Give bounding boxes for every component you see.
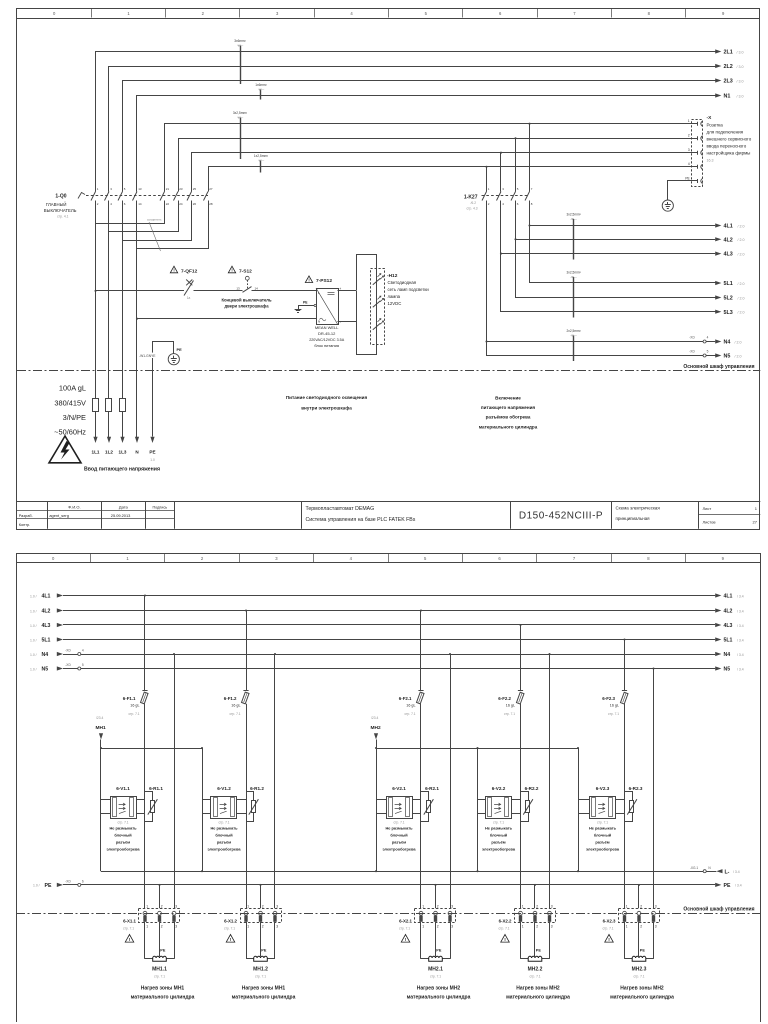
svg-text:стр. 4.1: стр. 4.1 bbox=[57, 215, 69, 219]
svg-text:3x2,5mm²: 3x2,5mm² bbox=[567, 213, 581, 217]
varistor 6-R2.2 bbox=[521, 786, 539, 822]
wire supply 1L1 bbox=[92, 201, 100, 455]
svg-text:!: ! bbox=[308, 277, 309, 282]
wire jumper pole3-pole7 bbox=[123, 201, 192, 241]
control vertical 6-V2.1 bbox=[375, 747, 377, 872]
svg-text:стр. 7.1: стр. 7.1 bbox=[602, 926, 613, 930]
svg-text:6-R1.2: 6-R1.2 bbox=[250, 786, 264, 791]
svg-text:27: 27 bbox=[753, 520, 758, 525]
svg-text:Ф.И.О.: Ф.И.О. bbox=[68, 505, 80, 510]
svg-text:-XG.1: -XG.1 bbox=[690, 866, 699, 870]
svg-text:4L3: 4L3 bbox=[724, 623, 733, 629]
svg-text:16 gL: 16 gL bbox=[130, 703, 139, 707]
PE drop bbox=[638, 884, 640, 908]
svg-text:16 gL: 16 gL bbox=[610, 703, 619, 707]
svg-text:MEAN WELL: MEAN WELL bbox=[315, 325, 339, 330]
svg-text:разъём: разъём bbox=[392, 839, 406, 844]
wire N to PSU bbox=[136, 318, 316, 320]
svg-text:сеть ламп подсветки: сеть ламп подсветки bbox=[388, 287, 430, 292]
svg-text:стр. 7.1: стр. 7.1 bbox=[529, 974, 540, 978]
cable marker 1x6mm2 (N1) bbox=[255, 83, 267, 100]
svg-text:25.09.2013: 25.09.2013 bbox=[111, 513, 130, 518]
svg-text:25: 25 bbox=[193, 187, 197, 191]
svg-text:материального цилиндра: материального цилиндра bbox=[131, 994, 195, 1000]
svg-text:1: 1 bbox=[146, 904, 148, 908]
svg-text:материального цилиндра: материального цилиндра bbox=[407, 994, 471, 1000]
svg-text:стр. 4.3: стр. 4.3 bbox=[466, 207, 477, 211]
svg-text:4L1: 4L1 bbox=[724, 224, 733, 230]
svg-text:2: 2 bbox=[640, 904, 642, 908]
svg-text:/ 2.0: / 2.0 bbox=[738, 224, 745, 228]
heater &#1052;&#1053;2.3 bbox=[625, 926, 654, 979]
svg-text:блочный: блочный bbox=[594, 833, 612, 838]
svg-text:1: 1 bbox=[626, 925, 628, 929]
svg-text:6-R2.3: 6-R2.3 bbox=[629, 786, 643, 791]
wire 4L3 / 5L3 bbox=[500, 201, 745, 316]
svg-text:МН2: МН2 bbox=[371, 725, 381, 731]
svg-text:-W—: -W— bbox=[237, 44, 244, 48]
neutral drop N4 zone &#1052;&#1053;1.1 bbox=[173, 653, 175, 908]
svg-text:4L2: 4L2 bbox=[724, 609, 733, 615]
svg-text:L-: L- bbox=[725, 869, 730, 875]
svg-text:22: 22 bbox=[166, 202, 170, 206]
svg-text:PE: PE bbox=[177, 347, 183, 352]
heater caption bbox=[610, 986, 674, 1001]
svg-text:МН2.2: МН2.2 bbox=[528, 966, 543, 972]
neutral drop N4 zone &#1052;&#1053;2.2 bbox=[548, 653, 550, 908]
heater &#1052;&#1053;2.2 bbox=[521, 926, 550, 979]
svg-text:/ 3.4: / 3.4 bbox=[737, 624, 744, 628]
svg-text:1.0: 1.0 bbox=[150, 458, 155, 462]
svg-text:5L2: 5L2 bbox=[724, 296, 733, 302]
svg-text:13: 13 bbox=[236, 286, 240, 290]
svg-text:5L1: 5L1 bbox=[724, 638, 733, 644]
connector hazard bbox=[401, 935, 410, 943]
control vertical 6-V2.3 bbox=[577, 747, 579, 872]
svg-text:6-F1.1: 6-F1.1 bbox=[123, 696, 136, 701]
socket -X text bbox=[707, 115, 752, 163]
svg-text:21: 21 bbox=[166, 187, 170, 191]
svg-text:-W—: -W— bbox=[570, 334, 577, 338]
SSR 6-V2.2 bbox=[478, 786, 521, 852]
svg-text:/ 3.0: / 3.0 bbox=[737, 50, 744, 54]
control input MH1 bbox=[96, 716, 106, 748]
wire supply 1L2 bbox=[105, 201, 113, 455]
svg-text:-H12: -H12 bbox=[387, 273, 398, 279]
socket PE earth bbox=[662, 200, 673, 211]
svg-text:5: 5 bbox=[707, 349, 709, 353]
svg-text:МН1.2: МН1.2 bbox=[253, 966, 268, 972]
svg-text:Не размыкать: Не размыкать bbox=[385, 826, 413, 831]
svg-text:стр. 7.1: стр. 7.1 bbox=[218, 820, 229, 824]
cabinet boundary sheet1 bbox=[17, 363, 760, 371]
svg-text:4L2: 4L2 bbox=[42, 609, 51, 615]
svg-text:2: 2 bbox=[437, 925, 439, 929]
svg-text:2: 2 bbox=[688, 134, 690, 138]
svg-text:/ 3.0: / 3.0 bbox=[737, 79, 744, 83]
wire 2L1 bbox=[96, 49, 744, 191]
svg-text:1: 1 bbox=[522, 904, 524, 908]
varistor 6-R1.1 bbox=[145, 786, 164, 822]
svg-text:4L2: 4L2 bbox=[724, 237, 733, 243]
svg-text:6-X2.3: 6-X2.3 bbox=[603, 918, 616, 923]
svg-text:/ 3.4: / 3.4 bbox=[735, 884, 742, 888]
svg-text:3: 3 bbox=[276, 904, 278, 908]
control feed bus MH1 bbox=[101, 748, 202, 750]
connector 6-X2.1 bbox=[399, 904, 456, 930]
svg-text:Ввод питающего напряжения: Ввод питающего напряжения bbox=[84, 467, 160, 473]
svg-text:/ 3.4: / 3.4 bbox=[737, 594, 744, 598]
svg-text:Светодиодная: Светодиодная bbox=[388, 280, 417, 285]
svg-text:внутри электрошкафа: внутри электрошкафа bbox=[301, 404, 352, 410]
svg-text:/ 3.0: / 3.0 bbox=[737, 94, 744, 98]
svg-text:6-R1.1: 6-R1.1 bbox=[149, 786, 163, 791]
svg-text:-W—: -W— bbox=[570, 217, 577, 221]
svg-text:/ 3.4: / 3.4 bbox=[737, 653, 744, 657]
cable marker 3x6mm2 (2L) bbox=[234, 39, 246, 84]
svg-text:N: N bbox=[318, 319, 320, 323]
sheet 1 frame bbox=[17, 8, 760, 530]
svg-text:стр. 7.1: стр. 7.1 bbox=[633, 974, 644, 978]
svg-text:/ 3.4: / 3.4 bbox=[737, 638, 744, 642]
svg-text:6-X1.1: 6-X1.1 bbox=[123, 918, 136, 923]
svg-text:26: 26 bbox=[193, 202, 197, 206]
heater caption bbox=[232, 986, 296, 1001]
svg-text:PE: PE bbox=[685, 176, 689, 180]
svg-text:стр. 7.1: стр. 7.1 bbox=[117, 820, 128, 824]
svg-text:разъёмов обогрева: разъёмов обогрева bbox=[486, 414, 531, 420]
fuse 6-F1.1 bbox=[123, 594, 148, 908]
svg-text:PE: PE bbox=[261, 948, 267, 952]
svg-text:6-F2.3: 6-F2.3 bbox=[602, 696, 615, 701]
connector hazard bbox=[125, 935, 134, 943]
svg-text:PE: PE bbox=[640, 948, 646, 952]
fuse 6-F2.2 bbox=[498, 624, 524, 908]
svg-text:Дата: Дата bbox=[119, 505, 129, 510]
svg-text:ВЫКЛЮЧАТЕЛЬ: ВЫКЛЮЧАТЕЛЬ bbox=[44, 208, 77, 213]
title block bbox=[17, 502, 760, 529]
svg-text:3: 3 bbox=[451, 904, 453, 908]
svg-text:стр. 7.1: стр. 7.1 bbox=[404, 712, 415, 716]
svg-text:N4: N4 bbox=[42, 652, 49, 658]
connector hazard bbox=[605, 935, 614, 943]
svg-text:1-Q0: 1-Q0 bbox=[55, 193, 66, 199]
svg-text:16 gL: 16 gL bbox=[506, 703, 515, 707]
note leader bbox=[147, 217, 162, 251]
svg-text:-W—: -W— bbox=[258, 88, 265, 92]
svg-text:DR-45-12: DR-45-12 bbox=[318, 331, 336, 336]
svg-text:1: 1 bbox=[522, 925, 524, 929]
svg-text:4: 4 bbox=[707, 335, 709, 339]
svg-text:6-V2.2: 6-V2.2 bbox=[492, 786, 506, 791]
svg-text:-XD: -XD bbox=[65, 663, 71, 667]
neutral drop N5 zone &#1052;&#1053;2.3 bbox=[652, 667, 654, 908]
svg-text:электрообогрева: электрообогрева bbox=[586, 846, 620, 851]
svg-text:-X: -X bbox=[707, 115, 713, 121]
svg-text:Листов: Листов bbox=[703, 520, 716, 525]
control vertical 6-V1.2 bbox=[201, 747, 203, 872]
svg-text:Питание светодиодного освещени: Питание светодиодного освещения bbox=[286, 395, 368, 400]
svg-text:1: 1 bbox=[247, 904, 249, 908]
svg-text:материального цилиндра: материального цилиндра bbox=[610, 994, 674, 1000]
svg-text:/ 2.0: / 2.0 bbox=[738, 252, 745, 256]
svg-text:лампа: лампа bbox=[388, 294, 401, 299]
wire jumper pole1-pole5 bbox=[96, 201, 165, 224]
svg-text:2: 2 bbox=[262, 904, 264, 908]
wire jumper pole2-pole6 bbox=[109, 201, 179, 232]
wire supply PE bbox=[149, 342, 173, 455]
svg-text:5: 5 bbox=[82, 663, 84, 667]
svg-text:380/415V: 380/415V bbox=[54, 399, 86, 408]
svg-text:3: 3 bbox=[551, 925, 553, 929]
fuse 6-F2.1 bbox=[399, 609, 424, 908]
svg-text:Нагрев зоны МН2: Нагрев зоны МН2 bbox=[516, 986, 560, 992]
svg-text:12VDC: 12VDC bbox=[388, 301, 402, 306]
svg-text:6-V1.2: 6-V1.2 bbox=[217, 786, 231, 791]
svg-text:-XD: -XD bbox=[65, 648, 71, 652]
svg-text:/ 2.0: / 2.0 bbox=[738, 311, 745, 315]
svg-text:2: 2 bbox=[437, 904, 439, 908]
svg-text:стр. 7.1: стр. 7.1 bbox=[255, 974, 266, 978]
varistor 6-R2.3 bbox=[625, 786, 643, 822]
svg-text:3x6mm²: 3x6mm² bbox=[234, 39, 246, 43]
wire 2L2 bbox=[109, 64, 744, 192]
heater caption bbox=[407, 986, 471, 1001]
svg-text:23: 23 bbox=[179, 187, 183, 191]
heater &#1052;&#1053;2.1 bbox=[421, 926, 451, 979]
svg-text:/ 3.4: / 3.4 bbox=[737, 609, 744, 613]
svg-text:Термопластавтомат DEMAG: Термопластавтомат DEMAG bbox=[306, 506, 375, 512]
svg-text:блок питания: блок питания bbox=[314, 343, 339, 348]
fuse 6-F1.2 bbox=[224, 609, 249, 908]
svg-text:6-F2.1: 6-F2.1 bbox=[399, 696, 412, 701]
svg-text:/ 2.0: / 2.0 bbox=[738, 282, 745, 286]
svg-text:6-V1.1: 6-V1.1 bbox=[116, 786, 130, 791]
heater caption bbox=[506, 986, 570, 1001]
svg-text:2: 2 bbox=[161, 904, 163, 908]
wire to socket pin 3 bbox=[192, 152, 692, 192]
svg-text:27: 27 bbox=[209, 187, 213, 191]
svg-text:/6.2: /6.2 bbox=[471, 201, 477, 205]
svg-text:1: 1 bbox=[626, 904, 628, 908]
svg-text:6-R2.1: 6-R2.1 bbox=[425, 786, 439, 791]
cable marker 1x2.5mm2 (socket N) bbox=[254, 154, 268, 173]
svg-text:16 gL: 16 gL bbox=[231, 703, 240, 707]
power supply 7-PS12 bbox=[305, 276, 344, 348]
svg-text:МН2.1: МН2.1 bbox=[428, 966, 443, 972]
svg-text:электрообогрева: электрообогрева bbox=[382, 846, 416, 851]
svg-text:блочный: блочный bbox=[215, 833, 233, 838]
svg-text:-W1-GNYE: -W1-GNYE bbox=[139, 354, 156, 358]
svg-text:2: 2 bbox=[161, 925, 163, 929]
svg-text:/ 3.4: / 3.4 bbox=[733, 870, 740, 874]
svg-text:1-K27: 1-K27 bbox=[464, 194, 478, 200]
svg-text:PE: PE bbox=[149, 450, 155, 455]
svg-text:двери электрошкафа: двери электрошкафа bbox=[224, 304, 269, 309]
svg-text:стр. 7.1: стр. 7.1 bbox=[498, 926, 509, 930]
bus N5 sheet2 bbox=[30, 663, 744, 673]
svg-text:6-V2.1: 6-V2.1 bbox=[392, 786, 406, 791]
caption lamps bbox=[286, 395, 368, 410]
PE bus sheet2 bbox=[33, 879, 742, 889]
neutral drop N4 zone &#1052;&#1053;2.1 bbox=[449, 653, 451, 908]
supply PE earth symbol bbox=[168, 347, 182, 365]
svg-text:стр. 7.1: стр. 7.1 bbox=[430, 974, 441, 978]
svg-text:стр. 7.1: стр. 7.1 bbox=[123, 926, 134, 930]
bus 4L2 sheet2 bbox=[30, 608, 744, 614]
svg-text:13: 13 bbox=[138, 187, 142, 191]
svg-text:Концевой выключатель: Концевой выключатель bbox=[221, 298, 272, 303]
bus 4L3 sheet2 bbox=[30, 623, 744, 629]
svg-text:Основной шкаф управления: Основной шкаф управления bbox=[683, 905, 754, 912]
svg-text:16 gL: 16 gL bbox=[406, 703, 415, 707]
fuse 6-F2.3 bbox=[602, 638, 628, 908]
wire jumper pole4-pole8 bbox=[137, 201, 209, 249]
svg-text:электрообогрева: электрообогрева bbox=[207, 846, 241, 851]
neutral drop N4 zone &#1052;&#1053;1.2 bbox=[274, 653, 276, 908]
svg-text:соединить: соединить bbox=[147, 217, 162, 221]
svg-text:Розетка: Розетка bbox=[707, 122, 724, 127]
SSR 6-V2.3 bbox=[578, 786, 625, 852]
svg-text:PE: PE bbox=[436, 948, 442, 952]
svg-text:3x2,5mm²: 3x2,5mm² bbox=[233, 111, 247, 115]
svg-text:3: 3 bbox=[688, 148, 690, 152]
svg-text:3: 3 bbox=[655, 925, 657, 929]
svg-text:2: 2 bbox=[262, 925, 264, 929]
svg-text:разъём: разъём bbox=[116, 839, 130, 844]
svg-text:1: 1 bbox=[247, 925, 249, 929]
cable marker 3x2.5mm2 (socket) bbox=[233, 111, 247, 159]
connector hazard bbox=[501, 935, 510, 943]
svg-text:1x2,5mm²: 1x2,5mm² bbox=[254, 154, 268, 158]
svg-text:стр. 7.1: стр. 7.1 bbox=[128, 712, 139, 716]
svg-text:1.0 /: 1.0 / bbox=[30, 667, 37, 671]
svg-text:блочный: блочный bbox=[114, 833, 132, 838]
svg-text:Подпись: Подпись bbox=[153, 506, 168, 510]
svg-text:1x6mm²: 1x6mm² bbox=[255, 83, 267, 87]
svg-text:1.0 /: 1.0 / bbox=[30, 609, 37, 613]
svg-text:-W—: -W— bbox=[258, 159, 265, 163]
SSR 6-V1.1 bbox=[101, 786, 145, 852]
svg-text:настройщика фирмы: настройщика фирмы bbox=[707, 149, 751, 155]
cabinet boundary sheet2 bbox=[16, 905, 760, 913]
svg-text:4L3: 4L3 bbox=[42, 623, 51, 629]
svg-text:-W—: -W— bbox=[570, 275, 577, 279]
cable marker 2x2.5mm2 (N) bbox=[567, 329, 581, 361]
svg-text:6-R2.2: 6-R2.2 bbox=[525, 786, 539, 791]
svg-text:24: 24 bbox=[179, 202, 183, 206]
svg-text:стр. 7.1: стр. 7.1 bbox=[493, 820, 504, 824]
svg-text:-XD: -XD bbox=[689, 349, 695, 353]
svg-text:3: 3 bbox=[551, 904, 553, 908]
svg-text:4: 4 bbox=[82, 648, 84, 652]
svg-text:Нагрев зоны МН1: Нагрев зоны МН1 bbox=[242, 986, 286, 992]
caption contactor bbox=[479, 396, 538, 430]
svg-text:1.0 /: 1.0 / bbox=[30, 624, 37, 628]
svg-text:/ 3.4: / 3.4 bbox=[737, 667, 744, 671]
svg-text:Система управления на базе PLC: Система управления на базе PLC FATEK FBs bbox=[306, 517, 416, 523]
wire to socket pin 1 bbox=[165, 123, 692, 192]
svg-text:6: 6 bbox=[82, 879, 84, 883]
svg-text:6-V2.3: 6-V2.3 bbox=[596, 786, 610, 791]
svg-text:стр. 7.1: стр. 7.1 bbox=[504, 712, 515, 716]
svg-text:внешнего сервисного: внешнего сервисного bbox=[707, 136, 752, 141]
connector 6-X1.1 bbox=[123, 904, 180, 930]
wire supply N bbox=[135, 201, 139, 455]
supply caption bbox=[84, 467, 160, 473]
svg-text:стр. 7.1: стр. 7.1 bbox=[399, 926, 410, 930]
svg-text:стр. 7.1: стр. 7.1 bbox=[154, 974, 165, 978]
varistor 6-R2.1 bbox=[421, 786, 440, 822]
svg-text:3: 3 bbox=[175, 904, 177, 908]
svg-text:agent_serg: agent_serg bbox=[49, 513, 68, 518]
svg-text:разъём: разъём bbox=[217, 839, 231, 844]
svg-text:3: 3 bbox=[655, 904, 657, 908]
svg-text:стр. 7.1: стр. 7.1 bbox=[229, 712, 240, 716]
svg-text:1L3: 1L3 bbox=[119, 450, 127, 455]
svg-text:D150-452NCIII-P: D150-452NCIII-P bbox=[519, 511, 603, 522]
svg-text:Включение: Включение bbox=[495, 396, 521, 401]
svg-text:/23.4: /23.4 bbox=[371, 716, 378, 720]
cable marker 3x2.5mm2 (5L) bbox=[567, 271, 581, 318]
svg-text:2: 2 bbox=[536, 904, 538, 908]
connector 6-X1.2 bbox=[224, 904, 282, 930]
svg-text:для подключения: для подключения bbox=[707, 129, 744, 134]
svg-text:разъём: разъём bbox=[595, 839, 609, 844]
svg-text:3/N/PE: 3/N/PE bbox=[63, 413, 86, 422]
svg-text:принципиальная: принципиальная bbox=[616, 516, 651, 521]
svg-text:/ 3.0: / 3.0 bbox=[737, 65, 744, 69]
main switch 1-Q0 bbox=[44, 187, 213, 218]
PE drop bbox=[534, 884, 536, 908]
bus 4L1 sheet2 bbox=[30, 593, 744, 599]
svg-text:N4: N4 bbox=[724, 340, 731, 346]
connector hazard bbox=[226, 935, 235, 943]
svg-text:Лист: Лист bbox=[703, 506, 712, 511]
svg-text:блочный: блочный bbox=[390, 833, 408, 838]
svg-text:PE: PE bbox=[536, 948, 542, 952]
svg-text:-XD: -XD bbox=[689, 335, 695, 339]
svg-text:/ 2.0: / 2.0 bbox=[735, 340, 742, 344]
wire N4 / N5 bbox=[485, 201, 741, 360]
svg-text:стр. 7.1: стр. 7.1 bbox=[224, 926, 235, 930]
svg-text:6-F1.2: 6-F1.2 bbox=[224, 696, 237, 701]
svg-text:!: ! bbox=[173, 268, 174, 273]
svg-text:~50/60Hz: ~50/60Hz bbox=[54, 428, 86, 437]
svg-text:1.0 /: 1.0 / bbox=[30, 653, 37, 657]
svg-text:N5: N5 bbox=[724, 667, 731, 673]
svg-text:6-F2.2: 6-F2.2 bbox=[498, 696, 511, 701]
svg-text:2L3: 2L3 bbox=[724, 79, 733, 85]
svg-text:!: ! bbox=[231, 268, 232, 273]
svg-text:6-X1.2: 6-X1.2 bbox=[224, 918, 237, 923]
bus 5L1 sheet2 bbox=[30, 637, 744, 643]
svg-text:1a: 1a bbox=[187, 296, 191, 300]
control input MH2 bbox=[371, 716, 381, 748]
svg-text:стр. 7.1: стр. 7.1 bbox=[393, 820, 404, 824]
svg-text:14: 14 bbox=[255, 286, 259, 290]
svg-text:6-X2.2: 6-X2.2 bbox=[499, 918, 512, 923]
svg-text:1.0 /: 1.0 / bbox=[30, 594, 37, 598]
svg-text:PE: PE bbox=[724, 883, 731, 889]
svg-text:1: 1 bbox=[422, 904, 424, 908]
svg-text:ГЛАВНЫЙ: ГЛАВНЫЙ bbox=[46, 202, 67, 207]
svg-text:1L2: 1L2 bbox=[105, 450, 113, 455]
svg-text:ввода переносного: ввода переносного bbox=[707, 143, 747, 148]
lamp group -H12 bbox=[371, 268, 430, 345]
svg-text:2: 2 bbox=[640, 925, 642, 929]
wire to socket pin 2 bbox=[179, 137, 692, 191]
